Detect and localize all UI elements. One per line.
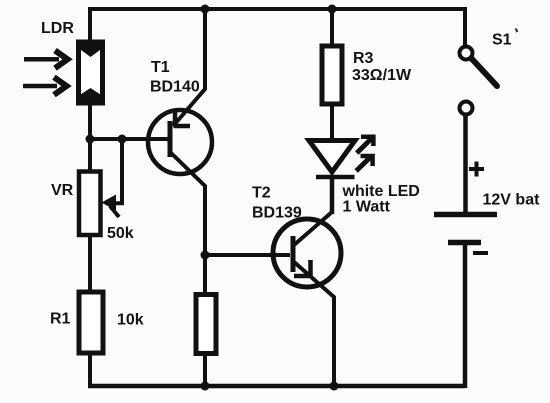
VR label	[51, 182, 74, 199]
VR value 50k	[107, 225, 134, 242]
LED label 1 Watt	[343, 199, 391, 216]
svg-text:BD140: BD140	[150, 79, 200, 96]
T1 collector wire	[169, 151, 205, 256]
T2 part number BD139	[252, 205, 302, 222]
battery label 12V bat	[483, 192, 541, 209]
svg-text:12V bat: 12V bat	[483, 192, 541, 209]
battery plus sign	[469, 162, 484, 177]
wire bottom rail	[88, 384, 465, 389]
svg-text:BD139: BD139	[252, 205, 302, 222]
svg-text:LDR: LDR	[41, 20, 74, 37]
VR wiper wire	[106, 139, 122, 217]
svg-text:50k: 50k	[107, 225, 134, 242]
battery BT1 12V	[434, 215, 497, 243]
svg-text:S1: S1	[492, 32, 512, 49]
LED label white LED	[342, 183, 420, 200]
wire right to switch	[463, 7, 467, 45]
wire R2 to bottom rail	[203, 353, 207, 386]
light arrow lower	[23, 77, 67, 95]
node B junction dot (wiper tap)	[118, 135, 127, 144]
junction dot T2 emitter / bottom rail	[330, 382, 339, 391]
switch S1	[460, 47, 498, 115]
LDR	[79, 42, 103, 103]
R3 label	[353, 50, 374, 67]
wire node C to T2 base	[205, 253, 290, 257]
junction dot R3 / top rail	[328, 5, 337, 14]
wire R3 to LED	[330, 104, 334, 140]
node junction dot T1 emitter / top rail	[201, 5, 210, 14]
wire node C to R2	[203, 255, 207, 294]
T2 label	[252, 185, 271, 202]
resistor R2	[196, 295, 216, 354]
wire R1 to bottom rail	[88, 353, 92, 386]
svg-text:1 Watt: 1 Watt	[343, 199, 391, 216]
T1 part number BD140	[150, 79, 200, 96]
battery minus sign	[473, 251, 488, 255]
wire LDR to node A	[88, 103, 92, 171]
transistor T2	[273, 219, 341, 287]
junction dot R2 bottom	[201, 382, 210, 391]
svg-text:T2: T2	[252, 185, 271, 202]
wire top rail	[90, 7, 465, 11]
wire LDR top	[88, 7, 92, 41]
LDR label	[41, 20, 74, 37]
resistor R3	[322, 46, 342, 104]
transistor T1	[148, 110, 212, 174]
light arrow upper	[24, 51, 68, 69]
R3 value 33ohm/1W	[352, 67, 412, 84]
wire battery to bottom rail	[463, 242, 468, 388]
VR wiper arrowhead	[102, 195, 117, 211]
LED light arrow lower	[356, 156, 372, 171]
svg-text:33Ω/1W: 33Ω/1W	[352, 67, 412, 84]
potentiometer VR	[79, 172, 101, 236]
node A junction dot	[86, 135, 95, 144]
wire node A to T1 base	[88, 137, 168, 141]
LED light arrow upper	[357, 137, 374, 153]
svg-text:10k: 10k	[117, 312, 144, 329]
wire switch to battery	[463, 115, 468, 212]
R1 label	[50, 311, 71, 328]
svg-text:VR: VR	[51, 182, 74, 199]
node C junction dot (T1 collector / R2 / T2 base)	[201, 251, 210, 260]
T1 label	[151, 59, 170, 76]
svg-text:R3: R3	[353, 50, 374, 67]
svg-text:T1: T1	[151, 59, 170, 76]
S1 label	[492, 32, 512, 49]
R1 value 10k	[117, 312, 144, 329]
svg-text:white LED: white LED	[342, 183, 420, 200]
wire top rail to R3	[330, 9, 334, 45]
T1 emitter wire	[174, 7, 206, 127]
T2 collector wire	[294, 178, 332, 245]
T2 emitter wire	[294, 260, 334, 386]
wire VR to R1	[88, 235, 92, 292]
S1 tick mark	[516, 29, 518, 33]
svg-text:R1: R1	[50, 311, 71, 328]
resistor R1	[79, 292, 103, 353]
LED D1	[309, 141, 355, 215]
